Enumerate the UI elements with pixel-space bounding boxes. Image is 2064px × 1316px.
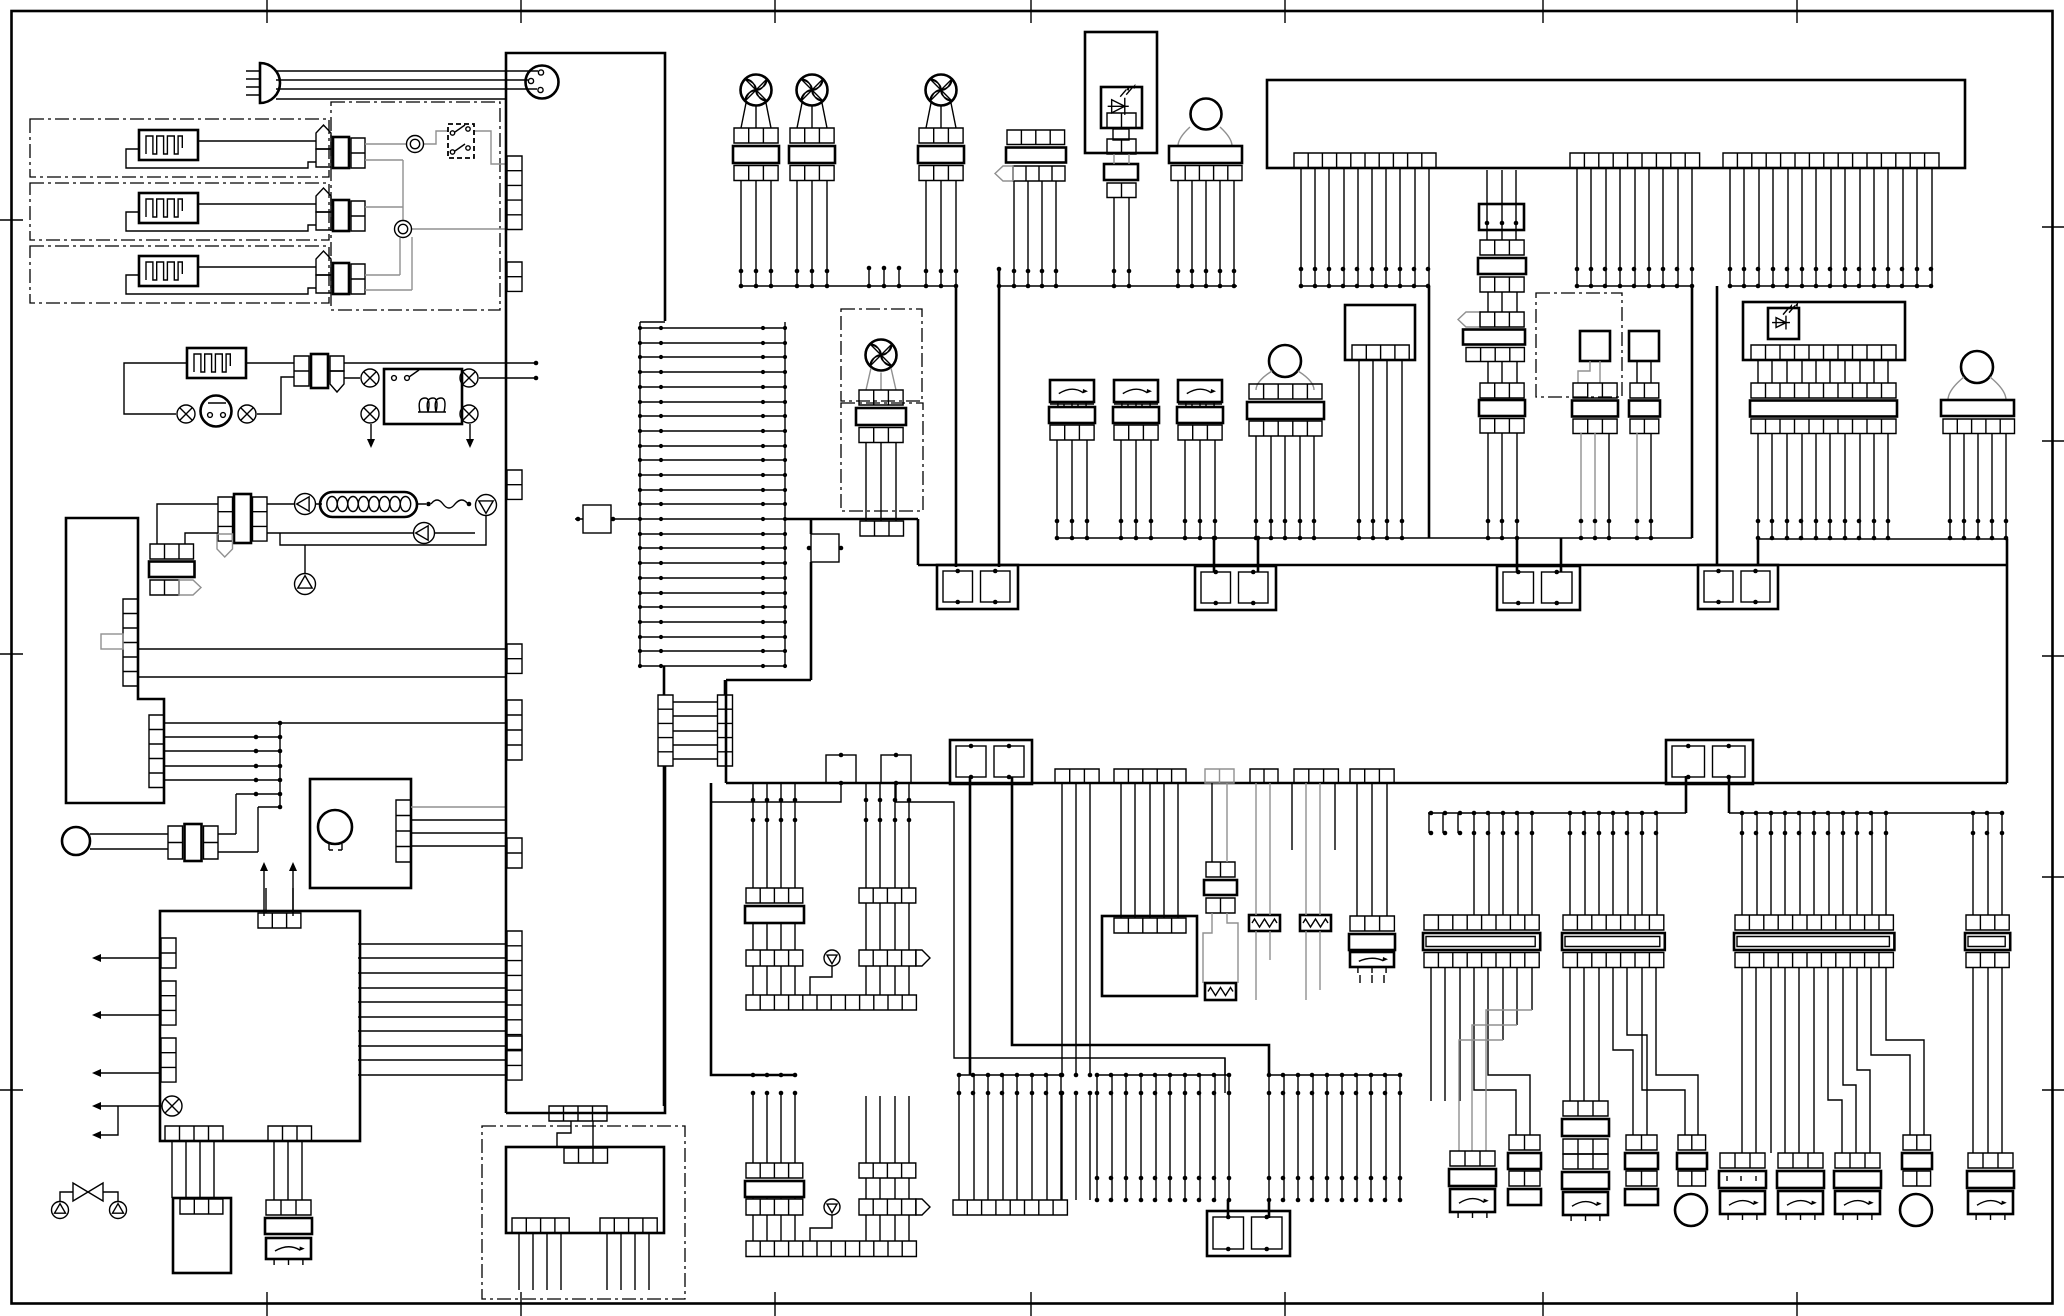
wire — [575, 518, 640, 520]
wire — [753, 783, 795, 888]
flow sensor FS2 — [1114, 380, 1158, 408]
wire — [1459, 1010, 1532, 1151]
lamp L6 — [460, 405, 478, 423]
link box LB1 — [583, 505, 611, 533]
wire — [1727, 1176, 1756, 1181]
wire — [157, 504, 413, 544]
lamp L9 — [1269, 345, 1301, 377]
wire — [198, 266, 316, 268]
bus riser — [663, 766, 666, 1106]
lamp L4 — [460, 369, 478, 387]
flow sensor FS8 — [1968, 1153, 2013, 1168]
main bus — [726, 519, 2007, 783]
connector pins — [1114, 769, 1186, 783]
dash-dot box heater row 1 — [30, 119, 329, 177]
connector pins — [165, 1126, 223, 1141]
link box BB1 — [811, 534, 839, 562]
fan motor M6 — [866, 340, 897, 371]
connector X17 — [1630, 383, 1659, 398]
control unit A2 — [160, 911, 360, 1141]
wire — [959, 1075, 1062, 1200]
connector pins — [161, 1038, 176, 1082]
wire — [1014, 181, 1056, 286]
flow sensor FS5 — [1720, 1153, 1765, 1168]
flow sensor FS7 — [1835, 1153, 1880, 1168]
terminal pin — [179, 580, 201, 595]
heater element E3 — [139, 256, 198, 286]
wire — [1948, 377, 2006, 400]
wire — [266, 888, 293, 913]
dash-dot box heater row 3 — [30, 246, 329, 303]
connector X10 — [1007, 130, 1065, 145]
lamp L8 — [1191, 99, 1222, 130]
heater element E4 — [187, 348, 246, 378]
connector pins — [258, 913, 301, 928]
heater element E1 — [139, 130, 198, 160]
wire — [276, 71, 538, 99]
bus riser — [970, 777, 1269, 1075]
lamp L7 — [162, 1096, 182, 1116]
wire — [1488, 433, 1517, 538]
switch S3 — [1629, 331, 1659, 361]
connector pins — [161, 938, 176, 968]
pump P2 — [476, 495, 497, 516]
wire — [164, 723, 506, 807]
connector X11 — [1169, 146, 1242, 163]
wire — [1758, 360, 1888, 383]
lamp L3 — [361, 369, 379, 387]
flow sensor FS6 — [1778, 1153, 1823, 1168]
switch S2 — [1580, 331, 1610, 361]
bus wire — [1577, 285, 1691, 287]
fuse block F5 — [950, 740, 1032, 784]
connector group X21 — [746, 1163, 803, 1178]
link circle D1 — [407, 136, 424, 153]
wire — [124, 363, 536, 414]
wire — [1178, 127, 1232, 146]
wire — [1228, 1200, 1269, 1218]
resistor unit R1 — [1206, 862, 1235, 877]
connector X5 — [218, 497, 233, 541]
valve V1 — [73, 1183, 103, 1201]
wire — [1742, 967, 1924, 1153]
wire — [365, 131, 506, 290]
connector pins — [507, 838, 522, 868]
arrow — [94, 1105, 162, 1107]
wire grid — [1269, 1075, 1400, 1200]
wire — [1306, 783, 1320, 1000]
wire — [1359, 360, 1402, 538]
connector pins — [1570, 153, 1700, 168]
fuse block F7 — [1207, 1211, 1290, 1256]
connector pins — [396, 800, 411, 862]
sensor unit B2 — [1085, 32, 1157, 153]
wire — [1758, 434, 1888, 539]
arrow — [94, 1106, 118, 1135]
wire — [1730, 168, 1932, 286]
flow sensor FS3 — [1178, 380, 1222, 408]
sensor unit B1 — [173, 1198, 231, 1273]
wire — [663, 666, 666, 695]
arrow — [264, 864, 293, 916]
connector pins — [507, 1036, 522, 1080]
connector X14 — [1480, 240, 1524, 255]
wire — [1114, 154, 1129, 164]
pump P5 — [52, 1202, 69, 1219]
multi connector X25 — [1966, 915, 2009, 930]
fuse block F1 — [937, 565, 1018, 609]
resistor R2 — [1249, 915, 1280, 931]
wire — [172, 1141, 302, 1200]
lamp L1 — [177, 405, 195, 423]
connector pins — [507, 156, 522, 230]
dash-dot box switch group — [1536, 293, 1622, 397]
wire — [866, 783, 909, 888]
lamp L2 — [238, 405, 256, 423]
wire — [711, 783, 1225, 1093]
fuse block F2 — [1195, 566, 1276, 610]
pump P4 — [295, 574, 316, 595]
junction dots — [751, 798, 798, 823]
resistor R3 — [1300, 915, 1331, 931]
connector pins — [1294, 769, 1338, 783]
connector pins — [1294, 153, 1436, 168]
connector X27 — [1509, 1135, 1540, 1150]
wire — [198, 140, 316, 142]
link cell — [1113, 129, 1129, 140]
main harness unit A3 — [506, 53, 665, 1113]
heater coil HC1 — [320, 492, 417, 517]
connector X7 — [168, 826, 183, 859]
sensor unit B3 — [1345, 305, 1415, 360]
wire — [519, 1233, 649, 1290]
wire — [198, 203, 316, 205]
arrow — [94, 1072, 160, 1074]
transfer connector X9 — [658, 695, 673, 766]
connector pins — [953, 1200, 1067, 1215]
wire — [557, 1121, 593, 1148]
terminal pin — [217, 534, 233, 557]
wire — [417, 500, 468, 508]
fan motor M5 — [926, 75, 957, 106]
connector box B4 — [1479, 204, 1524, 230]
wire — [1256, 783, 1270, 1000]
flow sensor FS1 — [1050, 380, 1094, 408]
connector pins — [1250, 769, 1278, 783]
connector pins — [860, 521, 904, 536]
connector X4 — [294, 356, 309, 386]
fan motor M4 — [797, 75, 828, 106]
link box B6 — [826, 755, 856, 783]
wire — [358, 944, 507, 1075]
connector X8 — [266, 1200, 311, 1215]
connector pins — [1055, 769, 1099, 783]
pump P7 — [824, 1199, 840, 1215]
wire — [1570, 967, 1698, 1135]
pump P8 — [1678, 1135, 1706, 1150]
connector pins — [1205, 769, 1234, 783]
wire — [753, 1093, 795, 1163]
fuse block F4 — [1698, 565, 1778, 609]
connector pins — [507, 262, 522, 291]
connector pins — [268, 1126, 312, 1141]
terminal strip TB1 — [640, 322, 785, 666]
wire — [1577, 168, 1692, 286]
junction dots — [254, 735, 259, 797]
connector X16 — [1573, 383, 1617, 398]
connector X12 — [866, 368, 896, 390]
connector pins — [1107, 139, 1136, 154]
connector pins — [507, 644, 522, 673]
wire — [1256, 436, 1314, 538]
pump P3 — [414, 523, 435, 544]
round connector CN1 — [526, 66, 559, 99]
junction dots — [864, 798, 912, 823]
bus drop — [1686, 776, 1729, 813]
connector X26 — [1450, 1151, 1495, 1166]
connector X15 — [1458, 312, 1480, 327]
connector X19 — [1941, 400, 2014, 416]
connector X3 — [316, 251, 331, 275]
multi connector X22 — [1424, 915, 1539, 930]
flow sensor FS4 — [1350, 916, 1394, 931]
bus wire — [1058, 538, 2007, 539]
bus riser — [956, 269, 999, 567]
connector pins — [149, 715, 164, 788]
connector pins — [507, 700, 522, 760]
wire — [1742, 813, 1886, 915]
wire — [866, 1096, 909, 1163]
pump P1 — [295, 494, 316, 515]
connector X13 — [1256, 371, 1314, 390]
wire — [1178, 181, 1234, 287]
junction dots — [638, 326, 787, 668]
arrow — [94, 957, 160, 959]
switch SW1 — [201, 396, 232, 427]
relay K1 — [384, 369, 462, 424]
wire — [411, 806, 506, 808]
wire — [866, 443, 896, 522]
switch box S1 — [448, 124, 474, 158]
wire — [344, 377, 536, 379]
wire — [1581, 433, 1595, 538]
bus riser — [1429, 286, 1717, 565]
wire — [1570, 813, 1657, 915]
link box B7 — [881, 755, 911, 783]
wire — [1950, 434, 2006, 539]
connector pins — [512, 1218, 569, 1233]
dash-dot box connector group — [331, 102, 500, 310]
fuse block F6 — [1666, 740, 1753, 784]
wire — [1431, 967, 1532, 1135]
dash-dot box sensor group — [482, 1126, 685, 1299]
wire — [1292, 783, 1335, 850]
wire — [1211, 783, 1213, 862]
lamp L10 — [1961, 351, 1993, 383]
bus wire — [1730, 285, 1932, 287]
connector pins — [507, 931, 522, 1049]
bus wire — [741, 285, 1237, 287]
link circle D2 — [395, 221, 412, 238]
sensor unit B5 — [1743, 302, 1905, 360]
wire — [1301, 168, 1429, 286]
wire — [280, 516, 486, 574]
sensor unit B8 — [506, 1147, 664, 1233]
connector X2 — [316, 188, 331, 212]
control unit A1 — [66, 518, 164, 803]
stub pins — [869, 268, 899, 286]
wire grid — [1097, 1058, 1229, 1200]
connector group X20 — [746, 888, 803, 903]
wire — [1973, 813, 2002, 915]
sensor unit B9 — [1102, 916, 1197, 996]
arrow — [370, 424, 372, 446]
wire — [1578, 361, 1600, 383]
connector X29 — [1626, 1135, 1657, 1150]
connector pins — [161, 981, 176, 1025]
connector X6 — [150, 544, 194, 559]
control unit A4 — [1267, 80, 1965, 168]
connector X28 — [1563, 1101, 1608, 1116]
motor unit M2 — [310, 779, 411, 888]
connector X18 — [1751, 383, 1896, 398]
arrow — [94, 1014, 160, 1016]
bus wire — [1428, 812, 2003, 814]
connector pins — [123, 599, 138, 686]
fan motor M3 — [741, 75, 772, 106]
horn symbol — [260, 63, 280, 103]
sensor M1 — [62, 827, 90, 855]
wire — [246, 71, 260, 95]
wire — [90, 794, 258, 852]
wire — [1973, 967, 2002, 1153]
connector pins — [1723, 153, 1939, 168]
fuse block F3 — [1497, 566, 1580, 610]
multi connector X23 — [1563, 915, 1664, 930]
dash-dot box heater row 2 — [30, 183, 329, 240]
wire — [1487, 170, 1516, 240]
bus wire — [1301, 285, 1429, 287]
wire — [1062, 783, 1090, 1075]
wire — [1121, 783, 1178, 918]
dash-dot box lamp unit — [841, 309, 922, 401]
wire — [60, 1192, 118, 1201]
connector pins — [549, 1106, 607, 1121]
arrow — [469, 424, 471, 446]
pump P9 — [1903, 1135, 1931, 1150]
wire — [673, 702, 717, 759]
bus drop — [1517, 538, 2007, 572]
wire — [1636, 433, 1638, 538]
wire — [1214, 538, 1258, 572]
connector X1 — [316, 125, 331, 149]
wire — [1637, 361, 1651, 383]
wire — [138, 649, 506, 677]
lamp L5 — [361, 405, 379, 423]
multi connector X24 — [1735, 915, 1893, 930]
wire — [1429, 813, 1532, 915]
plug stub — [101, 634, 123, 649]
pump P6 — [110, 1202, 127, 1219]
connector pins — [507, 470, 522, 499]
heater element E2 — [139, 193, 198, 223]
connector pins — [1350, 769, 1394, 783]
